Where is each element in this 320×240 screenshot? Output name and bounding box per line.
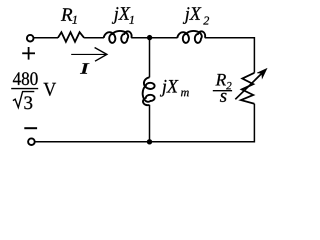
label R1: [61, 8, 72, 20]
label R2 subscript 2: [226, 82, 231, 89]
wire jX1 to jX2: [131, 37, 177, 39]
minus sign: [24, 127, 37, 129]
plus sign: [22, 47, 35, 60]
fraction bar 480/sqrt3: [11, 88, 38, 90]
node junction dot bottom: [147, 139, 152, 144]
wire middle branch top: [149, 38, 151, 78]
label R2 numerator: [216, 74, 226, 85]
inductor jXm coil (vertical): [143, 77, 155, 105]
label 480 numerator: [13, 72, 38, 85]
terminal bottom-left (open circle): [28, 138, 35, 145]
label jX1: [112, 7, 131, 24]
label jX2: [183, 7, 202, 24]
label current I: [80, 63, 90, 73]
inductor jX1 coil: [104, 31, 132, 43]
resistor R2 zigzag (vertical, variable): [241, 73, 254, 104]
label s denominator: [220, 93, 227, 102]
wire jX2 to top-right corner down to R2: [205, 38, 255, 73]
radical sign: [13, 92, 34, 108]
current arrow I shaft: [71, 53, 106, 55]
label jX2 subscript 2: [203, 17, 209, 25]
wire R2 to bottom-right corner and bottom wire: [35, 104, 254, 142]
resistor R1 zigzag: [58, 32, 84, 42]
wire top terminal to R1: [34, 37, 58, 39]
inductor jX2 coil: [177, 31, 205, 43]
terminal top-left (open circle): [27, 35, 34, 42]
variable-resistor arrow shaft: [235, 72, 263, 99]
label jXm subscript m: [181, 91, 189, 97]
label 3 under radical: [24, 96, 32, 109]
current arrow I head: [95, 48, 107, 62]
label R1 subscript 1: [72, 16, 76, 24]
label jXm: [160, 80, 179, 97]
wire R1 to jX1: [84, 37, 104, 39]
node junction dot top: [147, 35, 152, 40]
variable-resistor arrowhead: [257, 69, 267, 79]
fraction bar R2/s: [213, 90, 232, 92]
wire middle branch bottom: [149, 105, 151, 142]
label V volts: [44, 83, 57, 96]
label jX1 subscript 1: [129, 16, 133, 24]
